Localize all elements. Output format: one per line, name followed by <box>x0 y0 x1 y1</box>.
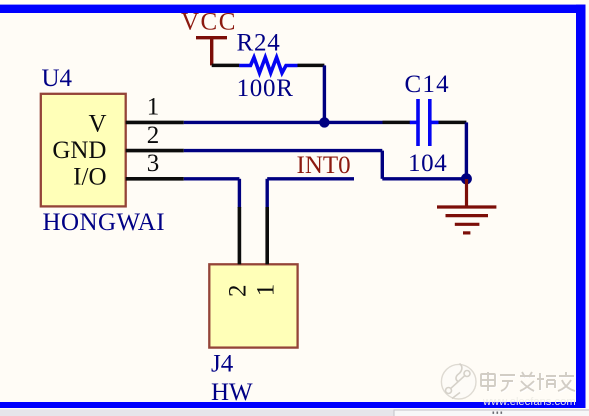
wire net GND: to ground junction <box>382 177 466 180</box>
svg-text:1: 1 <box>147 93 160 120</box>
svg-text:GND: GND <box>52 137 106 164</box>
wire resistor to corner <box>298 64 325 68</box>
IC U4 body <box>41 94 126 207</box>
capacitor C14 <box>383 99 467 146</box>
svg-text:J4: J4 <box>211 351 234 378</box>
svg-text:100R: 100R <box>237 75 294 102</box>
wire net IO: down to J4 pin 2 <box>238 179 241 208</box>
connector J4 body <box>209 264 297 347</box>
power port VCC <box>181 9 237 66</box>
pin 3 of U4 <box>126 150 184 179</box>
watermark chinese glyph strokes (decorative) <box>482 373 576 392</box>
wire net INT0: horizontal under label <box>267 177 354 180</box>
bottom scrollbar strip (decorative) <box>0 409 589 416</box>
pin 1 of U4 <box>126 93 184 122</box>
svg-text:INT0: INT0 <box>297 152 351 179</box>
wire net GND: pin2 horizontal <box>184 149 382 152</box>
svg-text:C14: C14 <box>405 71 450 98</box>
svg-text:www.elecfans.com: www.elecfans.com <box>482 396 576 408</box>
svg-text:1: 1 <box>253 284 280 297</box>
wire net GND: vertical jog <box>381 151 384 179</box>
wire net V: pin1 to capacitor <box>184 121 383 124</box>
wire net IO: pin3 horizontal <box>184 177 240 180</box>
watermark (decorative) <box>441 364 476 400</box>
wire VCC to resistor <box>212 64 240 68</box>
resistor R24 <box>239 57 297 73</box>
svg-text:VCC: VCC <box>181 9 237 36</box>
pin 1 of J4 <box>253 207 280 296</box>
svg-text:HW: HW <box>211 379 253 406</box>
svg-text:V: V <box>88 111 106 138</box>
svg-text:104: 104 <box>408 150 447 177</box>
svg-text:2: 2 <box>147 122 160 149</box>
junction on net V <box>319 117 329 127</box>
svg-text:HONGWAI: HONGWAI <box>43 209 166 236</box>
svg-text:U4: U4 <box>42 65 73 92</box>
ground <box>437 179 496 233</box>
svg-text:R24: R24 <box>237 30 281 57</box>
wire net INT0: vertical from J4 pin 1 <box>266 179 269 208</box>
svg-text:3: 3 <box>147 150 160 177</box>
svg-text:2: 2 <box>225 285 252 298</box>
pin 2 of J4 <box>225 207 252 297</box>
wire corner down to net V <box>323 65 326 122</box>
svg-text:I/O: I/O <box>73 163 106 190</box>
junction at ground node <box>461 173 472 184</box>
wire capacitor right down to ground junction <box>465 122 468 178</box>
pin 2 of U4 <box>126 122 184 151</box>
